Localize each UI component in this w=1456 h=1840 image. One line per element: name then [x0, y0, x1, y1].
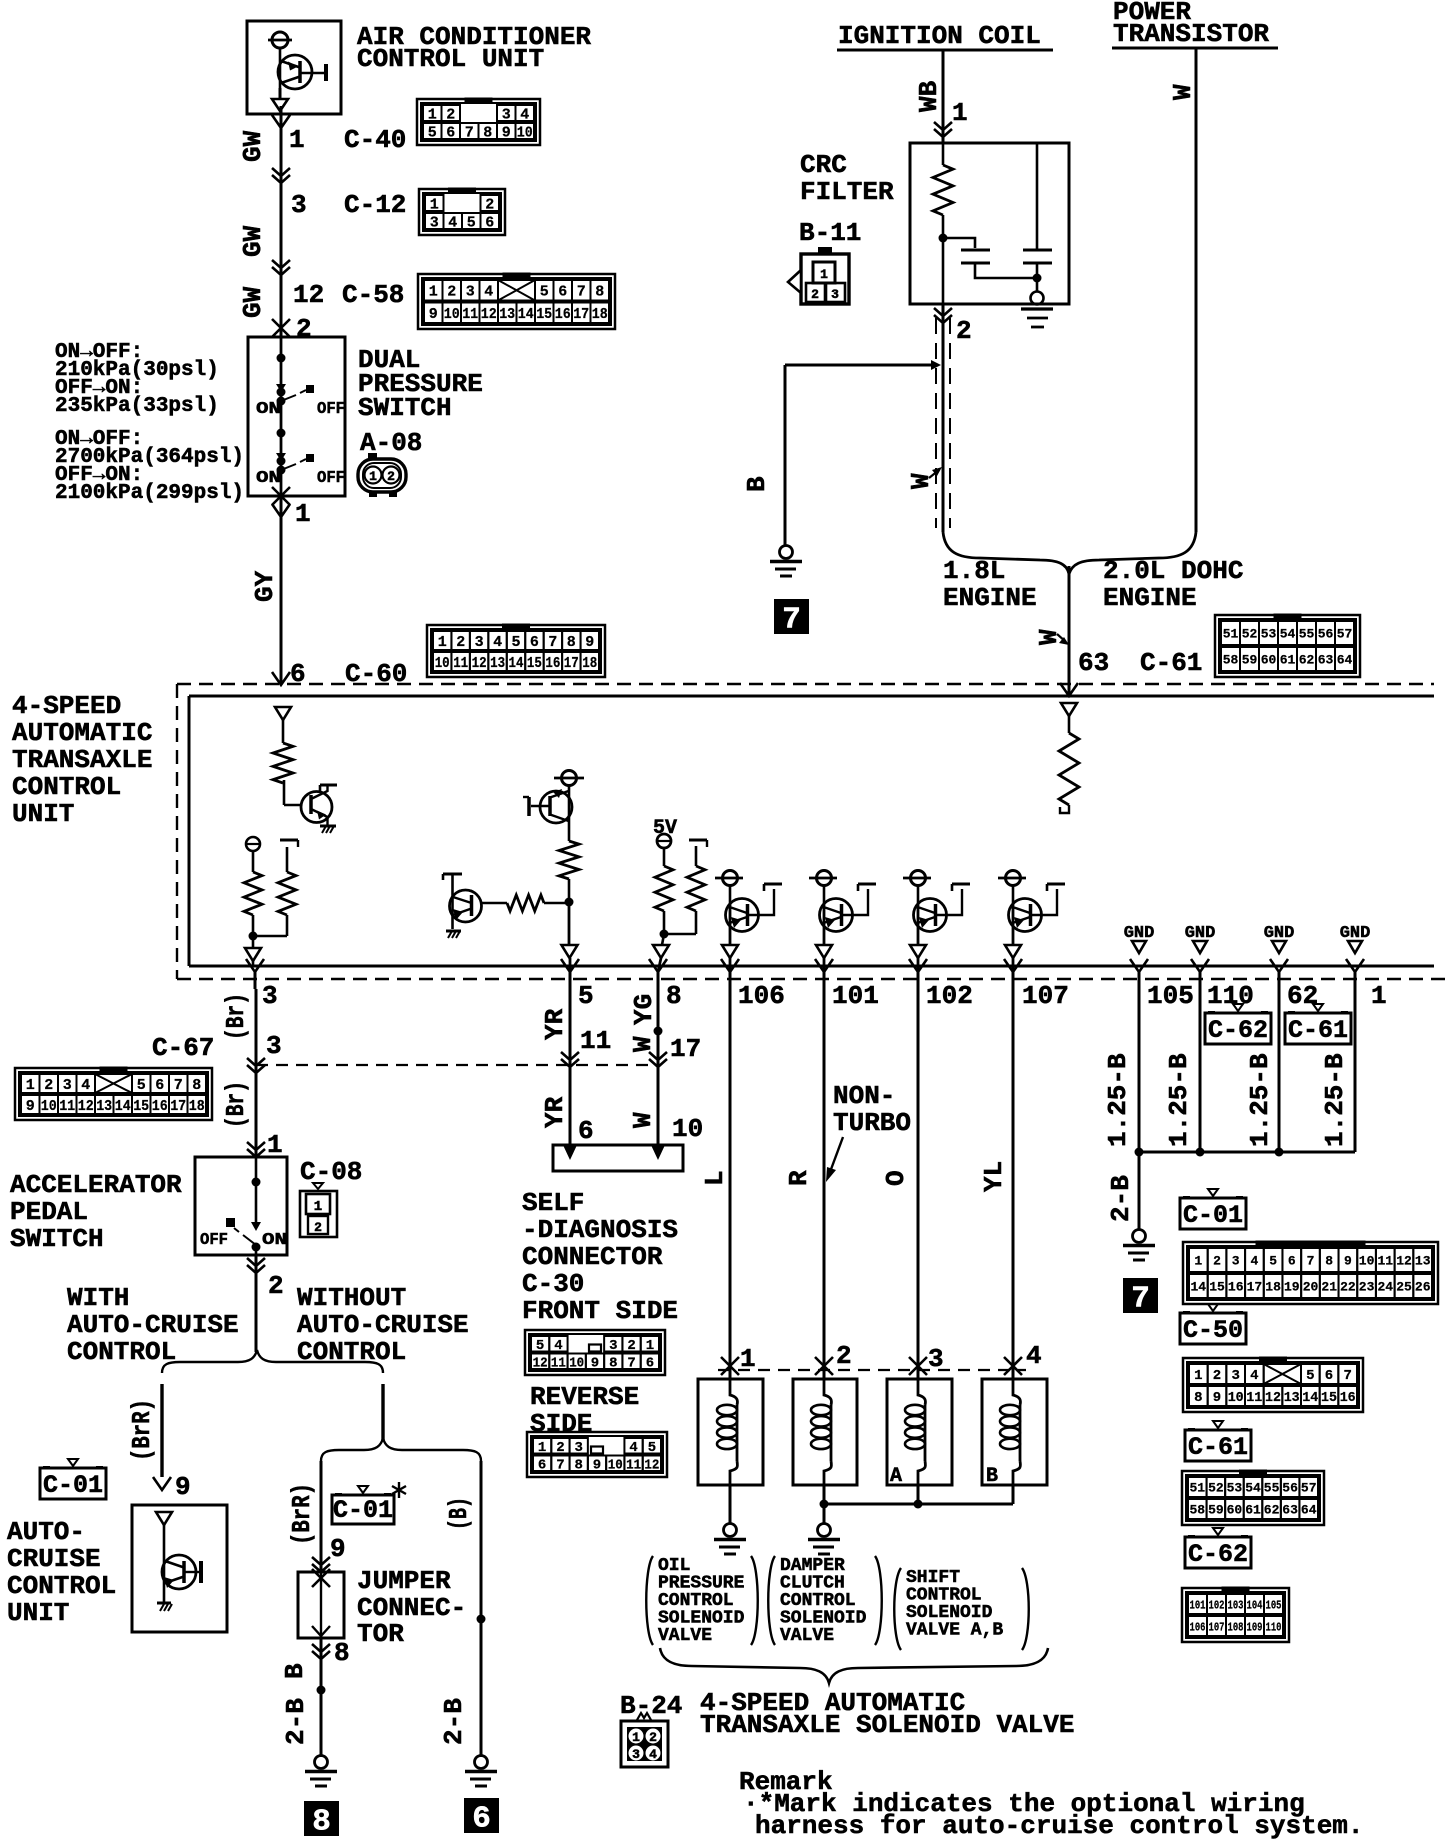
label damper clutch control solenoid valve [768, 1556, 882, 1646]
svg-text:2: 2 [956, 316, 972, 346]
ground pin at x=1279 [1264, 924, 1295, 953]
svg-text:5: 5 [511, 634, 520, 651]
wire solenoid 1 to ground [729, 1485, 732, 1524]
svg-text:YG: YG [629, 994, 659, 1025]
wire WB ignition coil to CRC filter [942, 50, 945, 143]
svg-text:15: 15 [527, 655, 542, 672]
svg-text:15: 15 [536, 306, 552, 323]
connector C-61 pin grid [1182, 1471, 1324, 1525]
svg-text:12: 12 [481, 306, 497, 323]
connector B-11 icon [788, 247, 849, 304]
svg-text:GW: GW [238, 286, 268, 318]
wire (BrR) to jumper connector [320, 1461, 323, 1572]
svg-text:2-B: 2-B [281, 1698, 311, 1745]
svg-text:AUTO-CRUISE: AUTO-CRUISE [67, 1310, 239, 1340]
svg-text:GW: GW [238, 225, 268, 257]
svg-text:8: 8 [334, 1638, 350, 1668]
wire GY from switch to C-60 [280, 496, 283, 685]
pin 101 of control unit [815, 959, 833, 972]
svg-text:1: 1 [295, 499, 311, 529]
svg-text:CONNECTOR: CONNECTOR [522, 1242, 663, 1272]
svg-text:5: 5 [648, 1440, 656, 1456]
svg-text:TRANSAXLE: TRANSAXLE [12, 745, 152, 775]
svg-text:18: 18 [1265, 1280, 1281, 1295]
connector B-24 icon [621, 1713, 668, 1767]
connector C-62 pin grid [1182, 1588, 1289, 1642]
svg-text:YR: YR [540, 1008, 570, 1040]
svg-text:CONTROL UNIT: CONTROL UNIT [357, 44, 544, 74]
svg-text:1: 1 [428, 106, 437, 123]
svg-text:2: 2 [44, 1077, 53, 1094]
pin 106 of control unit [721, 959, 739, 972]
svg-text:6: 6 [530, 634, 539, 651]
svg-text:5: 5 [540, 284, 549, 301]
svg-text:VALVE: VALVE [658, 1626, 712, 1646]
svg-text:1: 1 [1194, 1368, 1202, 1384]
connector name box C-50 [1208, 1304, 1218, 1311]
svg-text:107: 107 [1209, 1620, 1225, 1634]
svg-text:60: 60 [1261, 653, 1277, 668]
pin 1 of control unit [1346, 959, 1364, 972]
svg-text:17: 17 [670, 1034, 701, 1064]
splice chevron C-40/C-12 [272, 168, 290, 176]
svg-text:TURBO: TURBO [833, 1108, 911, 1138]
junction solenoid 3 [914, 1500, 923, 1509]
svg-text:15: 15 [1321, 1390, 1337, 1406]
svg-text:11: 11 [1246, 1390, 1262, 1406]
svg-text:C-01: C-01 [333, 1496, 393, 1525]
svg-text:3: 3 [502, 106, 511, 123]
connector C-30 reverse side pin grid [527, 1432, 667, 1477]
pin 102 of control unit [909, 959, 927, 972]
damper clutch control solenoid valve box [793, 1379, 857, 1485]
svg-text:9: 9 [429, 306, 438, 323]
svg-text:10: 10 [1228, 1390, 1244, 1406]
solenoid coil 4 [1013, 1379, 1020, 1405]
svg-text:25: 25 [1396, 1280, 1412, 1295]
svg-text:14: 14 [1190, 1280, 1206, 1295]
svg-text:YL: YL [979, 1161, 1009, 1192]
solenoid coil 3 [918, 1379, 925, 1405]
svg-text:9: 9 [26, 1098, 35, 1115]
svg-text:1.25-B: 1.25-B [1103, 1053, 1133, 1147]
svg-text:2: 2 [836, 1341, 852, 1371]
ground bus wire [1139, 1151, 1355, 1154]
svg-text:7: 7 [548, 634, 557, 651]
svg-text:ON: ON [262, 1231, 287, 1250]
input pin 63 resistor R8 [1059, 703, 1079, 813]
arrow into self-diagnosis connector [563, 1145, 577, 1160]
svg-text:ACCELERATOR: ACCELERATOR [10, 1170, 182, 1200]
svg-text:58: 58 [1223, 653, 1239, 668]
svg-text:A: A [890, 1465, 902, 1488]
svg-text:3: 3 [466, 284, 475, 301]
connector name box C-61 [1313, 1004, 1323, 1011]
ignition coil underline [837, 49, 1053, 52]
ground pin at x=1200 [1185, 924, 1216, 953]
4-speed automatic transaxle control unit dashed outline [177, 684, 1445, 979]
svg-text:CONTROL: CONTROL [7, 1571, 116, 1601]
svg-text:21: 21 [1321, 1280, 1337, 1295]
svg-text:16: 16 [545, 655, 560, 672]
svg-text:11: 11 [462, 306, 478, 323]
svg-text:110: 110 [1207, 981, 1254, 1011]
svg-text:C-50: C-50 [1183, 1316, 1243, 1345]
brace split with/without [162, 1350, 383, 1373]
svg-text:1: 1 [289, 125, 305, 155]
wire YR pin 5 to self-diagnosis [569, 989, 572, 1142]
svg-text:106: 106 [1190, 1620, 1206, 1634]
svg-text:2: 2 [649, 1730, 657, 1745]
splice chevron C-12/C-58 [272, 260, 290, 268]
ground reference 6 [464, 1798, 499, 1833]
wire to pin 5 [568, 902, 571, 945]
svg-text:61: 61 [1245, 1503, 1261, 1518]
svg-text:2: 2 [446, 106, 455, 123]
svg-text:7: 7 [1343, 1368, 1351, 1384]
svg-text:2: 2 [387, 469, 395, 484]
svg-text:8: 8 [483, 124, 492, 141]
svg-text:53: 53 [1227, 1481, 1243, 1496]
resistor R4 [559, 841, 579, 879]
svg-text:8: 8 [574, 1457, 582, 1473]
svg-text:55: 55 [1264, 1481, 1280, 1496]
svg-text:1: 1 [369, 469, 377, 484]
wire YG/W pin 8 to self-diagnosis [657, 989, 660, 1142]
svg-text:10: 10 [41, 1098, 57, 1115]
svg-text:12: 12 [1265, 1390, 1281, 1406]
svg-text:4: 4 [520, 106, 529, 123]
svg-text:16: 16 [1340, 1390, 1356, 1406]
svg-text:9: 9 [330, 1534, 346, 1564]
wire 110 to ground bus [1199, 989, 1202, 1152]
svg-text:8: 8 [1325, 1254, 1333, 1269]
svg-text:10: 10 [1359, 1254, 1375, 1269]
svg-text:59: 59 [1208, 1503, 1224, 1518]
svg-text:CONTROL: CONTROL [67, 1337, 176, 1367]
svg-text:10: 10 [672, 1114, 703, 1144]
CRC filter box B-11 [910, 143, 1069, 304]
connector C-12 pin grid [419, 189, 505, 235]
svg-text:62: 62 [1299, 653, 1315, 668]
svg-text:O: O [881, 1170, 911, 1186]
svg-text:AUTO-: AUTO- [7, 1517, 85, 1547]
svg-text:109: 109 [1247, 1620, 1263, 1634]
svg-text:23: 23 [1359, 1280, 1375, 1295]
svg-text:18: 18 [592, 306, 608, 323]
wire 1 to ground bus [1354, 989, 1357, 1152]
svg-text:OFF: OFF [317, 469, 345, 488]
svg-text:7: 7 [782, 603, 801, 638]
ground symbol [315, 1756, 328, 1769]
svg-text:51: 51 [1189, 1481, 1205, 1496]
svg-text:JUMPER: JUMPER [357, 1566, 451, 1596]
svg-text:6: 6 [446, 124, 455, 141]
svg-text:56: 56 [1318, 627, 1334, 642]
svg-text:10: 10 [569, 1355, 584, 1371]
svg-text:102: 102 [926, 981, 973, 1011]
svg-text:2: 2 [447, 284, 456, 301]
svg-text:SWITCH: SWITCH [10, 1224, 104, 1254]
svg-text:2.0L DOHC: 2.0L DOHC [1103, 556, 1243, 586]
wire (B) without auto-cruise to ground 6 [480, 1461, 483, 1757]
svg-text:11: 11 [626, 1457, 641, 1473]
wire below accelerator switch [255, 1255, 258, 1352]
svg-text:(BrR): (BrR) [127, 1399, 157, 1461]
svg-text:18: 18 [189, 1098, 205, 1115]
svg-text:9: 9 [591, 1355, 599, 1371]
self-diagnosis connector box [553, 1145, 683, 1171]
svg-text:12: 12 [644, 1457, 659, 1473]
svg-text:OFF: OFF [200, 1231, 228, 1250]
output transistor Q5 pin 101 [809, 871, 876, 973]
splice chevron pin 2 CRC [934, 308, 952, 316]
svg-text:4: 4 [1026, 1341, 1042, 1371]
connector crossing solenoid 1 [721, 1357, 739, 1375]
svg-text:C-61: C-61 [1140, 648, 1202, 678]
svg-text:4: 4 [649, 1747, 657, 1762]
connector arrow pin 1 A-08 [272, 504, 290, 517]
svg-text:4: 4 [448, 214, 457, 231]
svg-text:106: 106 [738, 981, 785, 1011]
svg-text:12: 12 [472, 655, 487, 672]
svg-text:235kPa(33psl): 235kPa(33psl) [55, 395, 219, 418]
wire O pin 102 to solenoid 3 [917, 989, 920, 1379]
svg-text:14: 14 [509, 655, 524, 672]
svg-text:1.8L: 1.8L [943, 556, 1005, 586]
wire 2-B to ground 8 [320, 1638, 323, 1757]
svg-text:C-12: C-12 [344, 190, 406, 220]
svg-text:3: 3 [262, 981, 278, 1011]
svg-text:B-24: B-24 [620, 1691, 682, 1721]
svg-text:W: W [1168, 84, 1198, 100]
svg-text:R: R [784, 1170, 814, 1186]
svg-text:4: 4 [81, 1077, 90, 1094]
svg-text:SWITCH: SWITCH [358, 393, 452, 423]
svg-text:6: 6 [1288, 1254, 1296, 1269]
svg-text:5: 5 [578, 981, 594, 1011]
ground symbol B wire [780, 546, 793, 559]
CRC filter circuit [933, 143, 1053, 327]
svg-text:5: 5 [467, 214, 476, 231]
pin 63 crossing [1060, 683, 1078, 696]
connector crossing solenoid 3 [909, 1357, 927, 1375]
wire solenoid 3 to bus [917, 1485, 920, 1504]
output transistor Q4 pin 106 [715, 871, 782, 973]
svg-text:3: 3 [609, 1338, 617, 1354]
svg-text:104: 104 [1247, 1598, 1263, 1612]
svg-text:9: 9 [593, 1457, 601, 1473]
svg-text:6: 6 [558, 284, 567, 301]
svg-text:10: 10 [608, 1457, 623, 1473]
svg-text:101: 101 [832, 981, 879, 1011]
connector C-67 pin grid [15, 1068, 212, 1120]
label oil pressure control solenoid valve [646, 1556, 758, 1646]
svg-text:SELF: SELF [522, 1188, 584, 1218]
svg-text:52: 52 [1242, 627, 1258, 642]
svg-text:B: B [986, 1465, 998, 1488]
svg-text:WITH: WITH [67, 1283, 129, 1313]
connector crossing solenoid 2 [815, 1357, 833, 1375]
svg-text:2100kPa(299psl): 2100kPa(299psl) [55, 482, 244, 505]
svg-text:62: 62 [1264, 1503, 1280, 1518]
svg-text:AUTOMATIC: AUTOMATIC [12, 718, 152, 748]
junction on wire (B) [477, 1615, 486, 1624]
svg-text:56: 56 [1282, 1481, 1298, 1496]
svg-text:2: 2 [1213, 1254, 1221, 1269]
svg-text:7: 7 [627, 1355, 635, 1371]
svg-text:6: 6 [155, 1077, 164, 1094]
arrow into self-diagnosis connector [651, 1145, 665, 1160]
connector name box C-01 optional [358, 1486, 368, 1493]
svg-text:1: 1 [646, 1338, 654, 1354]
5V supply resistors R6 R7 [653, 834, 707, 972]
svg-text:16: 16 [555, 306, 571, 323]
air conditioner control unit box [247, 21, 341, 114]
svg-text:3: 3 [475, 634, 484, 651]
connector name box C-62 lower [1213, 1528, 1223, 1535]
svg-text:C-61: C-61 [1188, 1433, 1248, 1462]
svg-text:6: 6 [538, 1457, 546, 1473]
ground pin at x=1139 [1124, 924, 1155, 953]
svg-text:C-58: C-58 [342, 280, 404, 310]
svg-text:SIDE: SIDE [530, 1409, 592, 1439]
svg-text:7: 7 [174, 1077, 183, 1094]
svg-text:ENGINE: ENGINE [943, 583, 1037, 613]
svg-text:VALVE: VALVE [780, 1626, 834, 1646]
dashed connector line B-24 [718, 1369, 1026, 1371]
svg-text:16: 16 [152, 1098, 168, 1115]
wire GW from A/C unit to dual pressure switch [280, 106, 283, 337]
pin 8 of control unit [649, 959, 667, 972]
svg-text:6: 6 [578, 1116, 594, 1146]
dual pressure switch box A-08 [248, 337, 345, 496]
svg-text:C-01: C-01 [1183, 1201, 1243, 1230]
svg-text:C-30: C-30 [522, 1269, 584, 1299]
svg-text:15: 15 [133, 1098, 149, 1115]
svg-text:9: 9 [175, 1472, 191, 1502]
splice chevron accelerator switch [247, 1142, 265, 1150]
svg-text:IGNITION COIL: IGNITION COIL [838, 21, 1041, 51]
power transistor underline [1112, 47, 1278, 50]
ground reference 7 [1123, 1278, 1158, 1313]
junction ground bus 105 [1135, 1148, 1144, 1157]
wire solenoid 4 to bus [1012, 1485, 1015, 1504]
svg-text:26: 26 [1415, 1280, 1431, 1295]
svg-text:55: 55 [1299, 627, 1315, 642]
wire (Br) pin 3 to C-67 [255, 989, 258, 1157]
pin 3 of control unit [246, 959, 264, 972]
svg-text:9: 9 [1344, 1254, 1352, 1269]
connector arrow pin 1 C-40 [272, 115, 290, 128]
ground symbol [475, 1756, 488, 1769]
svg-text:1: 1 [26, 1077, 35, 1094]
svg-text:4: 4 [1250, 1254, 1258, 1269]
asterisk mark optional harness [392, 1482, 406, 1498]
pin 62 of control unit [1270, 959, 1288, 972]
transistor Q3 [443, 874, 507, 938]
splice chevron pin 11 [561, 1052, 579, 1060]
svg-text:20: 20 [1303, 1280, 1319, 1295]
dashed connector line C-67 [256, 1064, 660, 1066]
svg-text:TOR: TOR [357, 1619, 404, 1649]
svg-text:TRANSAXLE SOLENOID VALVE: TRANSAXLE SOLENOID VALVE [700, 1710, 1074, 1740]
wire (BrR) to auto-cruise unit [160, 1384, 163, 1477]
svg-text:7: 7 [1131, 1282, 1150, 1317]
svg-text:3: 3 [63, 1077, 72, 1094]
connector crossing pin 1 [272, 487, 290, 505]
svg-text:YR: YR [540, 1096, 570, 1128]
svg-text:13: 13 [96, 1098, 112, 1115]
svg-text:10: 10 [444, 306, 460, 323]
svg-text:11: 11 [453, 655, 468, 672]
wire YL pin 107 to solenoid 4 [1012, 989, 1015, 1379]
svg-text:5: 5 [1269, 1254, 1277, 1269]
svg-text:ON: ON [256, 469, 281, 488]
auto-cruise control unit box [132, 1505, 227, 1632]
resistor R5 [507, 895, 544, 911]
svg-text:60: 60 [1227, 1503, 1243, 1518]
connector name box C-01 [1208, 1189, 1218, 1196]
ground reference 7 [774, 599, 809, 634]
svg-text:57: 57 [1301, 1481, 1317, 1496]
svg-text:1: 1 [314, 1199, 322, 1215]
svg-text:C-62: C-62 [1208, 1016, 1268, 1045]
svg-text:5: 5 [536, 1338, 544, 1354]
svg-text:3: 3 [291, 190, 307, 220]
junction on ground wire [317, 1686, 326, 1695]
jumper connector box [298, 1572, 344, 1638]
svg-text:101: 101 [1190, 1598, 1206, 1612]
wire 105 to ground [1138, 989, 1141, 1230]
svg-text:C-67: C-67 [152, 1033, 214, 1063]
svg-text:12: 12 [293, 280, 324, 310]
connector C-30 front side pin grid [525, 1330, 665, 1375]
svg-text:18: 18 [582, 655, 597, 672]
svg-text:1: 1 [632, 1730, 640, 1745]
svg-text:UNIT: UNIT [12, 799, 74, 829]
svg-text:1: 1 [820, 267, 828, 282]
svg-text:5: 5 [1306, 1368, 1314, 1384]
svg-text:11: 11 [1377, 1254, 1393, 1269]
svg-text:3: 3 [831, 287, 839, 302]
output transistor Q6 pin 102 [903, 871, 970, 973]
transistor in A/C control unit [268, 32, 326, 111]
connector C-61 top pin grid [1215, 615, 1360, 677]
splice chevron jumper bottom [312, 1644, 330, 1652]
wire to junction [544, 902, 569, 905]
svg-text:63: 63 [1282, 1503, 1298, 1518]
wire R pin 101 to solenoid 2 [823, 989, 826, 1379]
svg-text:53: 53 [1261, 627, 1277, 642]
svg-text:4: 4 [1250, 1368, 1258, 1384]
svg-text:19: 19 [1284, 1280, 1300, 1295]
svg-text:58: 58 [1189, 1503, 1205, 1518]
arrow to pin 5 [562, 945, 578, 958]
svg-text:8: 8 [312, 1805, 331, 1840]
svg-text:(Br): (Br) [221, 1081, 251, 1128]
svg-text:1: 1 [538, 1440, 546, 1456]
svg-text:C-61: C-61 [1288, 1016, 1348, 1045]
svg-text:14: 14 [518, 306, 534, 323]
engine variant merge right [1069, 532, 1196, 574]
svg-text:2: 2 [485, 196, 494, 213]
svg-text:13: 13 [1284, 1390, 1300, 1406]
connector crossing pin 2 [272, 319, 290, 337]
splice chevron jumper top [312, 1557, 330, 1565]
svg-text:B-11: B-11 [799, 218, 861, 248]
svg-text:2: 2 [268, 1271, 284, 1301]
